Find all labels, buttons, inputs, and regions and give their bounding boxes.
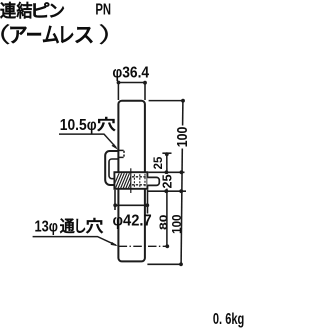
svg-text:13φ: 13φ [35,219,59,236]
φ42.7 dimension line [115,204,148,206]
13φ hole centerline (dash-dot) [119,245,169,247]
extension line at collar top [148,171,184,173]
leader arrowhead [112,144,118,150]
svg-text:PN: PN [95,2,111,19]
svg-text:100: 100 [169,215,184,234]
φ36.4 dimension line [118,82,145,84]
pin tab sticking out right [147,177,159,185]
φ42.7 extension lines [114,190,116,210]
tick at top of 25 dimension [162,152,171,154]
collar (42.7 dia flange), white fill [114,172,147,189]
svg-text:25: 25 [159,174,174,188]
extension line at cylinder bottom [147,263,182,265]
svg-text:80: 80 [158,215,170,231]
title text 連結ピン [0,2,63,18]
bracket inner outline [109,159,118,179]
label 通し穴 [60,219,74,233]
hidden pin edges inside collar (dashed) [132,176,147,178]
svg-text:100: 100 [174,127,191,148]
outer dimension line (100/100) [182,101,184,126]
svg-text:10.5φ: 10.5φ [60,117,97,134]
leader line for 10.5φ hole [59,134,116,148]
10.5φ hole (hidden, dashed square) [119,149,124,151]
svg-text:25: 25 [151,157,165,170]
leader arrowhead [111,242,118,246]
svg-text:φ42.7: φ42.7 [113,212,152,229]
svg-text:φ36.4: φ36.4 [112,64,149,81]
label 穴 [98,117,115,131]
extension line at cylinder top [149,100,185,102]
leader line for 13φ through hole [33,237,116,246]
extension line at collar bottom [148,190,186,192]
bracket outer outline (hook plate) [105,151,118,185]
title text （アームレス） [1,24,107,44]
svg-text:0. 6kg: 0. 6kg [213,311,244,328]
φ36.4 extension lines [117,83,119,101]
hole vertical centerline through collar [130,168,132,193]
inner dimension line (25/25/80) [166,154,168,174]
label 25 (lower, on the line) [162,174,172,188]
cylinder body (36.4 dia pin body) [118,101,144,262]
